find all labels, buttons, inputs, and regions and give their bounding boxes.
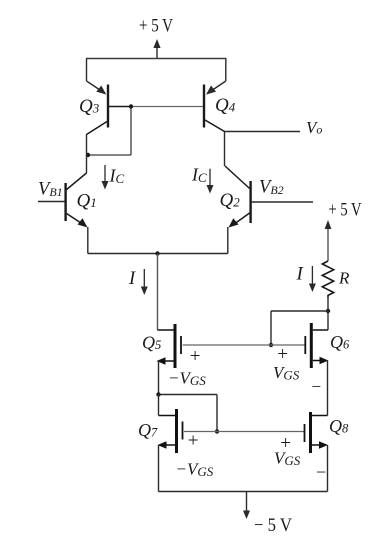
wire: right rail drop to Q4 emitter	[206, 59, 226, 95]
wire: Q2 emitter down/left to common node	[158, 227, 228, 254]
node: emitter common junction	[155, 251, 159, 255]
wire: Q3 collector to Q1 collector	[86, 134, 88, 173]
+5V supply arrow (top)	[153, 39, 160, 58]
svg-text:−: −	[316, 462, 326, 482]
svg-text:+: +	[277, 344, 288, 365]
mosfet Q7	[159, 409, 183, 453]
transistor Q4 (pnp)	[131, 85, 225, 132]
svg-text:R: R	[338, 269, 350, 288]
resistor R	[322, 261, 333, 298]
wire: Q7 drain up to node	[158, 395, 160, 416]
transistor Q3 (pnp)	[87, 85, 132, 135]
wire: Q5 source down	[158, 361, 160, 395]
wire: Q8 source down	[327, 445, 329, 492]
wire: Q5 gate to Q6 gate	[183, 344, 305, 346]
svg-text:−: −	[312, 377, 322, 396]
wire: resistor bottom to node	[327, 297, 329, 311]
wire: Q7 source down	[158, 445, 160, 492]
+5V supply arrow (right)	[325, 220, 332, 261]
wire: top rail	[86, 58, 227, 60]
current arrow I (tail current)	[141, 269, 148, 295]
node: Q7 gate junction	[215, 429, 219, 433]
node: Q6 gate junction	[269, 343, 273, 347]
svg-text:+ 5 V: + 5 V	[329, 200, 362, 221]
wire: Q7 gate to Q8 gate	[184, 431, 304, 433]
wire: left rail drop to Q3 emitter	[87, 59, 107, 95]
wire: Q6 drain up to node	[327, 311, 329, 330]
wire: output to Vo	[225, 131, 301, 133]
wire: common node down to Q5 drain	[157, 254, 159, 331]
current arrow IC (right)	[207, 169, 214, 194]
svg-text:+ 5 V: + 5 V	[139, 16, 173, 37]
mosfet Q8 (mirrored)	[305, 412, 328, 453]
wire: Q7 gate-drain tie	[159, 395, 218, 432]
-5V supply arrow (bottom)	[243, 492, 250, 520]
wire: VB1 base lead	[38, 201, 65, 203]
svg-text:− 5 V: − 5 V	[254, 515, 292, 536]
transistor Q1 (npn)	[66, 173, 87, 223]
current arrow IC (left)	[102, 165, 109, 190]
wire: Q1 emitter down/right to common node	[88, 227, 158, 254]
wire: Q6 source down to Q8 drain	[327, 361, 329, 416]
wire: bottom rail	[159, 491, 328, 493]
wire: VB2 base lead	[252, 201, 313, 203]
transistor Q2 (npn, mirrored)	[225, 166, 251, 224]
wire: Q3 base-collector tie	[88, 107, 131, 156]
current arrow I (resistor)	[309, 266, 316, 292]
wire: Q4/Q2 collector, output node	[224, 132, 226, 167]
mosfet Q6 (mirrored)	[305, 323, 328, 368]
node: resistor / Q6 drain junction	[326, 309, 330, 313]
mosfet Q5	[158, 324, 182, 368]
svg-text:+: +	[188, 431, 199, 452]
node: Q3 base junction	[129, 104, 133, 108]
svg-text:I: I	[128, 269, 136, 289]
node: Q3/Q1 collector junction	[86, 153, 90, 157]
wire: Q6 drain-gate tie	[271, 311, 328, 345]
svg-text:+: +	[190, 346, 201, 367]
node: Q5 source / Q7 drain junction	[156, 392, 160, 396]
